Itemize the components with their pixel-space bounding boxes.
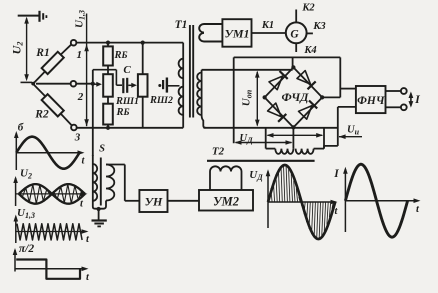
svg-text:УМ2: УМ2 (213, 195, 239, 209)
wire bottom rail (77, 127, 184, 129)
T2 primary winding (209, 172, 211, 191)
bridge edge top-left (265, 67, 294, 97)
S core (100, 158, 102, 206)
wire FNCh to output bottom (386, 106, 401, 108)
S secondary winding (106, 165, 114, 201)
ground at S (98, 209, 100, 220)
node A (divider node) (31, 82, 35, 86)
wire FNCh bottom to line A (338, 106, 356, 108)
block UM2 (199, 190, 253, 211)
wire node to terminal 2 (36, 83, 71, 85)
potentiometer RSh1 (103, 74, 113, 97)
wiper arrow to RSh2 (128, 84, 132, 86)
waveform I axes (344, 169, 346, 232)
wire terminal1 to T1 primary top (76, 42, 183, 44)
wire FNCh to output top (386, 90, 401, 92)
T2 core (207, 160, 315, 162)
waveform U13 carrier (17, 224, 82, 240)
bridge edge bottom-right (293, 97, 322, 127)
svg-text:G: G (290, 29, 299, 41)
resistor R1 (33, 71, 45, 83)
waveform U2 axes (15, 178, 17, 206)
waveform e sine (16, 137, 79, 169)
T1 core (189, 25, 191, 118)
junction dot Rsh2 column top (141, 41, 145, 45)
svg-text:S: S (99, 144, 105, 155)
junction dot S bottom (97, 207, 101, 211)
wire T1 secondary top to bridge (202, 69, 293, 71)
voltage arrow Ui (339, 136, 362, 138)
wire bridge right corner to rail (322, 96, 340, 98)
voltage line U13 (86, 14, 88, 127)
wire UN to UM2 (168, 200, 200, 202)
voltage arrow UD lower (236, 142, 292, 144)
stub K4 (295, 43, 297, 52)
waveform U13 axes (15, 217, 17, 244)
diode D1 (left-top edge) (269, 76, 283, 90)
resistor R2 (33, 84, 45, 96)
junction dot left column bottom (106, 126, 110, 130)
tap symbol at T1 primary (158, 84, 161, 87)
svg-text:1: 1 (77, 49, 83, 61)
ground (chassis) top-left (38, 11, 40, 22)
resistor RB top (107, 43, 109, 47)
wire top-left to ground (18, 15, 40, 17)
waveform pi/2 axes (14, 250, 16, 272)
waveform U2 envelope (19, 184, 85, 204)
wire T2 tap to bridge bottom (292, 128, 294, 149)
waveform pi/2 step (16, 260, 80, 279)
svg-text:RБ: RБ (115, 107, 129, 118)
S primary winding (93, 155, 99, 209)
waveform I sine (345, 164, 407, 237)
terminal 3 (71, 125, 77, 131)
diode D4 (bottom-right edge) (299, 106, 313, 120)
wire vertical C (323, 128, 325, 149)
svg-text:К3: К3 (312, 21, 325, 32)
output terminal top (401, 88, 407, 94)
svg-text:R2: R2 (34, 109, 49, 121)
stub K3 (307, 32, 313, 34)
svg-text:УН: УН (145, 195, 163, 209)
waveform e axes (15, 133, 17, 170)
svg-text:б: б (18, 122, 24, 134)
block UN (139, 190, 167, 212)
block FNCh (356, 86, 386, 113)
svg-text:ФНЧ: ФНЧ (357, 95, 385, 107)
wire line A T1 secondary bottom (204, 127, 338, 129)
wiper arrow RSh1 (93, 83, 98, 85)
output terminal bottom (401, 104, 407, 110)
diode D2 (top-right edge) (297, 71, 311, 85)
terminal 2 (71, 81, 77, 87)
T2 secondary winding (266, 148, 276, 150)
svg-text:К4: К4 (303, 45, 316, 56)
svg-text:RБ: RБ (113, 50, 127, 61)
diode D3 (left-bottom edge) (268, 103, 282, 117)
wire junction to capacitor C (115, 70, 117, 86)
junction dot terminal2 bus (91, 82, 95, 86)
terminal 1 (71, 40, 77, 46)
voltage arrow UD upper (268, 134, 323, 136)
wire left rail (233, 57, 235, 143)
svg-text:R1: R1 (35, 47, 49, 59)
block UM1 (222, 19, 251, 47)
waveform UD hatching (268, 165, 333, 239)
svg-text:RШ1: RШ1 (115, 96, 139, 107)
wire right rail (339, 57, 341, 97)
current arrow I (410, 94, 412, 106)
bridge edge top-right (293, 67, 322, 97)
wire vertical B (265, 128, 267, 149)
bridge edge bottom-left (265, 97, 294, 127)
potentiometer RSh2 (138, 74, 148, 97)
svg-text:2: 2 (77, 91, 84, 103)
svg-text:ФЧД: ФЧД (282, 90, 310, 104)
stub K2 (295, 10, 297, 23)
waveform UD sine (268, 165, 335, 239)
svg-text:К2: К2 (301, 3, 315, 14)
svg-text:RШ2: RШ2 (149, 95, 173, 106)
wire rail to FNCh top (340, 88, 356, 90)
bridge corner dots (291, 65, 295, 69)
waveform UD axes (267, 172, 269, 229)
svg-text:Т1: Т1 (175, 19, 188, 31)
svg-text:К1: К1 (261, 20, 274, 31)
wire UM1 to G (K1) (252, 32, 286, 34)
svg-text:УМ1: УМ1 (224, 27, 249, 41)
svg-text:π/2: π/2 (19, 243, 34, 255)
waveform U2 carrier fill (19, 184, 82, 204)
T1 primary winding (182, 43, 184, 128)
wire terminal2 bus down to S (76, 83, 93, 85)
wire rect top (234, 56, 341, 58)
svg-text:C: C (123, 64, 131, 76)
generator G (286, 22, 307, 43)
voltage arrow Uop (256, 72, 258, 126)
wire RB-RSh1 junction (107, 66, 109, 75)
T1 secondary winding lower (202, 70, 206, 128)
wire bridge top corner up (292, 57, 294, 67)
svg-text:Т2: Т2 (212, 146, 225, 158)
resistor RB bottom (107, 97, 109, 104)
junction dot left column top (106, 41, 110, 45)
wire S secondary to UN (106, 164, 125, 166)
capacitor C (122, 78, 124, 93)
voltage arrow U2 (26, 19, 28, 80)
svg-text:3: 3 (74, 132, 81, 144)
wire T2 right end to FNCh bottom (324, 146, 338, 149)
svg-text:I: I (333, 168, 339, 180)
T1 secondary winding upper (204, 23, 222, 25)
